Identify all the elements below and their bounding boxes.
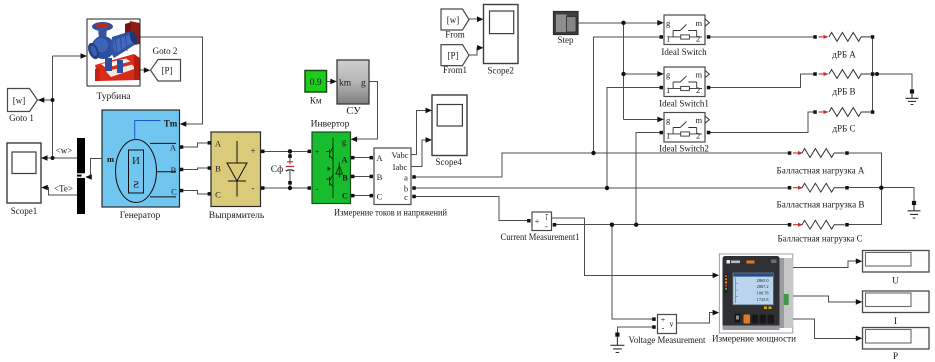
svg-text:P: P (893, 352, 898, 362)
svg-text:A: A (341, 155, 348, 165)
svg-text:Ideal Switch: Ideal Switch (661, 47, 707, 57)
svg-text:Генератор: Генератор (120, 211, 161, 221)
svg-text:Балластная нагрузка В: Балластная нагрузка В (777, 200, 865, 210)
svg-text:Измерение мощности: Измерение мощности (712, 335, 796, 345)
svg-text:2867.2: 2867.2 (757, 284, 769, 289)
svg-text:A: A (215, 139, 222, 149)
wire From1 to Scope2 input 2 (469, 48, 478, 55)
port squares on electrical connections (180, 35, 875, 329)
svg-text:[P]: [P] (448, 51, 459, 61)
Step block (554, 12, 579, 35)
wire Inverter A to measurement A (353, 157, 371, 159)
resistor dRB C (819, 108, 871, 117)
svg-text:Tm: Tm (164, 119, 178, 129)
Voltage Measurement block (658, 315, 677, 334)
wire Ideal Switch2 2 to dRB C (710, 112, 815, 133)
ballast resistor B (793, 183, 845, 192)
svg-text:Сф: Сф (271, 164, 284, 175)
svg-text:И: И (132, 155, 140, 167)
wire Iabc to Scope4 input 2 (411, 140, 427, 166)
wire Inverter B to measurement B (353, 175, 371, 177)
svg-text:A: A (376, 153, 383, 163)
svg-text:km: km (339, 79, 352, 89)
svg-text:m: m (696, 70, 703, 80)
gain Km (305, 71, 327, 93)
svg-text:m: m (696, 18, 703, 28)
wire DC minus rail (263, 185, 309, 188)
Scope1 (7, 143, 41, 203)
svg-text:A: A (170, 143, 177, 153)
svg-text:m: m (107, 154, 114, 164)
svg-text:i: i (546, 214, 548, 222)
svg-text:g: g (361, 79, 366, 89)
capacitor Сф element (286, 158, 294, 181)
svg-text:C: C (377, 192, 383, 202)
display I (863, 291, 930, 313)
wire power meter out 3 to display P (793, 319, 857, 338)
svg-text:C: C (171, 187, 177, 197)
Goto1 [w] (8, 89, 38, 112)
wire dRB common to ground 1 (873, 74, 913, 90)
svg-text:Км: Км (310, 96, 322, 106)
svg-text:Vabc: Vabc (392, 150, 409, 160)
wire power meter out 2 to display I (793, 296, 857, 302)
svg-text:+: + (315, 148, 320, 157)
Ideal Switch (664, 15, 709, 45)
wire Generator C to Rectifier C (183, 191, 210, 194)
generator block (102, 110, 180, 207)
wire ballast common to ground 2 (849, 188, 915, 201)
wire net Te : bus selector to Scope1 input 2 (42, 188, 85, 196)
wire phase b : measurement b to ballast B (415, 187, 789, 189)
svg-text:[P]: [P] (162, 66, 173, 76)
svg-text:<w>: <w> (56, 146, 73, 156)
svg-text:S: S (133, 179, 139, 191)
wire ballast common vertical (849, 153, 882, 225)
svg-text:Voltage Measurement: Voltage Measurement (629, 335, 706, 345)
wire Turbine output to Goto2 [P] (140, 69, 149, 71)
wire VM v output to power meter input 2 (677, 313, 715, 323)
svg-text:c: c (404, 192, 408, 202)
Goto2 [P] (151, 60, 181, 82)
wire From to Scope2 input 1 (469, 18, 478, 20)
turbine image block (86, 19, 140, 86)
svg-text:Ideal Switch2: Ideal Switch2 (659, 144, 709, 154)
svg-text:дРБ А: дРБ А (832, 50, 856, 60)
ground 3 for VM (610, 333, 624, 353)
SU controller block (337, 60, 369, 104)
wire phase a riser to Ideal Switch port 1 (594, 37, 661, 153)
wire Turbine output to Generator Tm (140, 37, 202, 124)
svg-text:Current Measurement1: Current Measurement1 (501, 232, 580, 242)
svg-text:дРБ С: дРБ С (832, 124, 855, 134)
svg-text:1: 1 (666, 34, 670, 44)
resistor dRB A (819, 33, 871, 42)
power meter image block (719, 254, 793, 333)
svg-text:Выпрямитель: Выпрямитель (209, 211, 265, 221)
svg-text:-: - (252, 183, 255, 193)
svg-text:v: v (670, 320, 674, 329)
svg-text:Scope1: Scope1 (11, 206, 38, 216)
inverter block (312, 132, 351, 204)
wire Vabc to Scope4 input 1 (411, 110, 427, 154)
Scope2 (484, 5, 519, 64)
svg-text:+: + (250, 146, 255, 156)
wire Inverter C to measurement C (353, 195, 371, 197)
svg-text:1: 1 (666, 131, 670, 141)
svg-text:U: U (892, 277, 899, 287)
wire phase c continued : CM1 minus to ballast C (556, 224, 789, 226)
svg-text:B: B (171, 165, 177, 175)
Current Measurement1 block (532, 212, 552, 231)
svg-text:From1: From1 (443, 65, 467, 75)
svg-text:-: - (316, 185, 319, 194)
wire dRB common vertical (872, 37, 874, 112)
svg-text:Scope2: Scope2 (487, 66, 514, 76)
ground 1 for dRB (906, 89, 919, 104)
svg-text:Iabc: Iabc (393, 162, 408, 172)
svg-text:1: 1 (666, 85, 670, 95)
From1 [P] (441, 45, 469, 66)
svg-text:Step: Step (557, 35, 574, 45)
svg-text:Инвертор: Инвертор (311, 119, 350, 129)
svg-text:m: m (696, 115, 703, 125)
wire SU g output to Inverter g (356, 81, 378, 139)
resistor dRB B (819, 70, 871, 79)
wire Km gain to SU (327, 80, 332, 82)
wire Generator B to Rectifier B (183, 168, 210, 169)
svg-text:B: B (342, 173, 348, 183)
svg-text:Goto 1: Goto 1 (9, 113, 34, 123)
Ideal Switch1 (664, 67, 709, 97)
svg-text:I: I (894, 317, 897, 327)
arrowheads (38, 16, 863, 341)
svg-text:-: - (662, 324, 665, 333)
svg-text:B: B (215, 164, 221, 174)
From [w] (441, 9, 469, 30)
svg-text:[w]: [w] (13, 96, 26, 106)
wire Generator m to bus selector (86, 159, 102, 177)
ballast resistor C (793, 220, 845, 229)
Scope4 (432, 95, 467, 156)
wire Ideal Switch1 2 to dRB B (710, 74, 815, 88)
wire CM1 i output to power meter input 1 (552, 218, 715, 275)
svg-text:Измерение токов и напряжений: Измерение токов и напряжений (334, 208, 447, 219)
wire Generator A to Rectifier A (183, 143, 210, 147)
svg-text:Балластная нагрузка С: Балластная нагрузка С (778, 234, 863, 244)
wire net w : bus selector to Scope1, Goto1 and Turbine (38, 56, 86, 158)
svg-text:0.9: 0.9 (310, 78, 322, 88)
svg-text:<Te>: <Te> (54, 184, 73, 194)
wire Voltage Measurement plus riser (612, 225, 653, 319)
svg-text:Goto 2: Goto 2 (153, 46, 178, 56)
svg-text:1725.8: 1725.8 (757, 297, 769, 302)
svg-text:[w]: [w] (447, 15, 460, 25)
rectifier block (211, 132, 261, 207)
wire DC plus rail (263, 151, 309, 154)
svg-text:+: + (535, 217, 540, 226)
Ideal Switch2 (664, 113, 709, 143)
svg-text:Ideal Switch1: Ideal Switch1 (659, 99, 709, 109)
svg-text:СУ: СУ (346, 106, 361, 117)
svg-text:From: From (445, 30, 465, 40)
svg-text:a: a (404, 173, 408, 183)
wire power meter out 1 to display U (793, 261, 857, 267)
svg-text:C: C (215, 190, 221, 200)
wire phase a : measurement a to ballast A row (415, 153, 789, 177)
ground 2 for ballast (908, 201, 921, 218)
svg-text:B: B (377, 172, 383, 182)
svg-text:Scope4: Scope4 (435, 157, 462, 167)
display U (863, 251, 930, 273)
measurement block (374, 148, 411, 205)
wire phase c riser to Ideal Switch2 port 1 (636, 133, 660, 225)
ballast resistor A (793, 149, 845, 158)
svg-text:Турбина: Турбина (96, 91, 131, 102)
wire Ideal Switch 2 to dRB A (710, 36, 815, 38)
svg-text:-: - (545, 222, 548, 231)
wire phase b riser to Ideal Switch1 port 1 (607, 88, 660, 189)
wire Step output to switch gates (578, 23, 659, 120)
bus selector (77, 138, 85, 214)
svg-text:2865.0: 2865.0 (757, 278, 769, 283)
svg-text:100.78: 100.78 (757, 291, 769, 296)
wire VM minus to ground (617, 327, 653, 333)
wire phase c : measurement c to Current Measurement1 (415, 196, 528, 220)
display P (863, 328, 930, 350)
svg-text:дРБ В: дРБ В (832, 87, 855, 97)
svg-text:C: C (342, 191, 348, 201)
svg-text:Балластная нагрузка А: Балластная нагрузка А (777, 166, 865, 176)
